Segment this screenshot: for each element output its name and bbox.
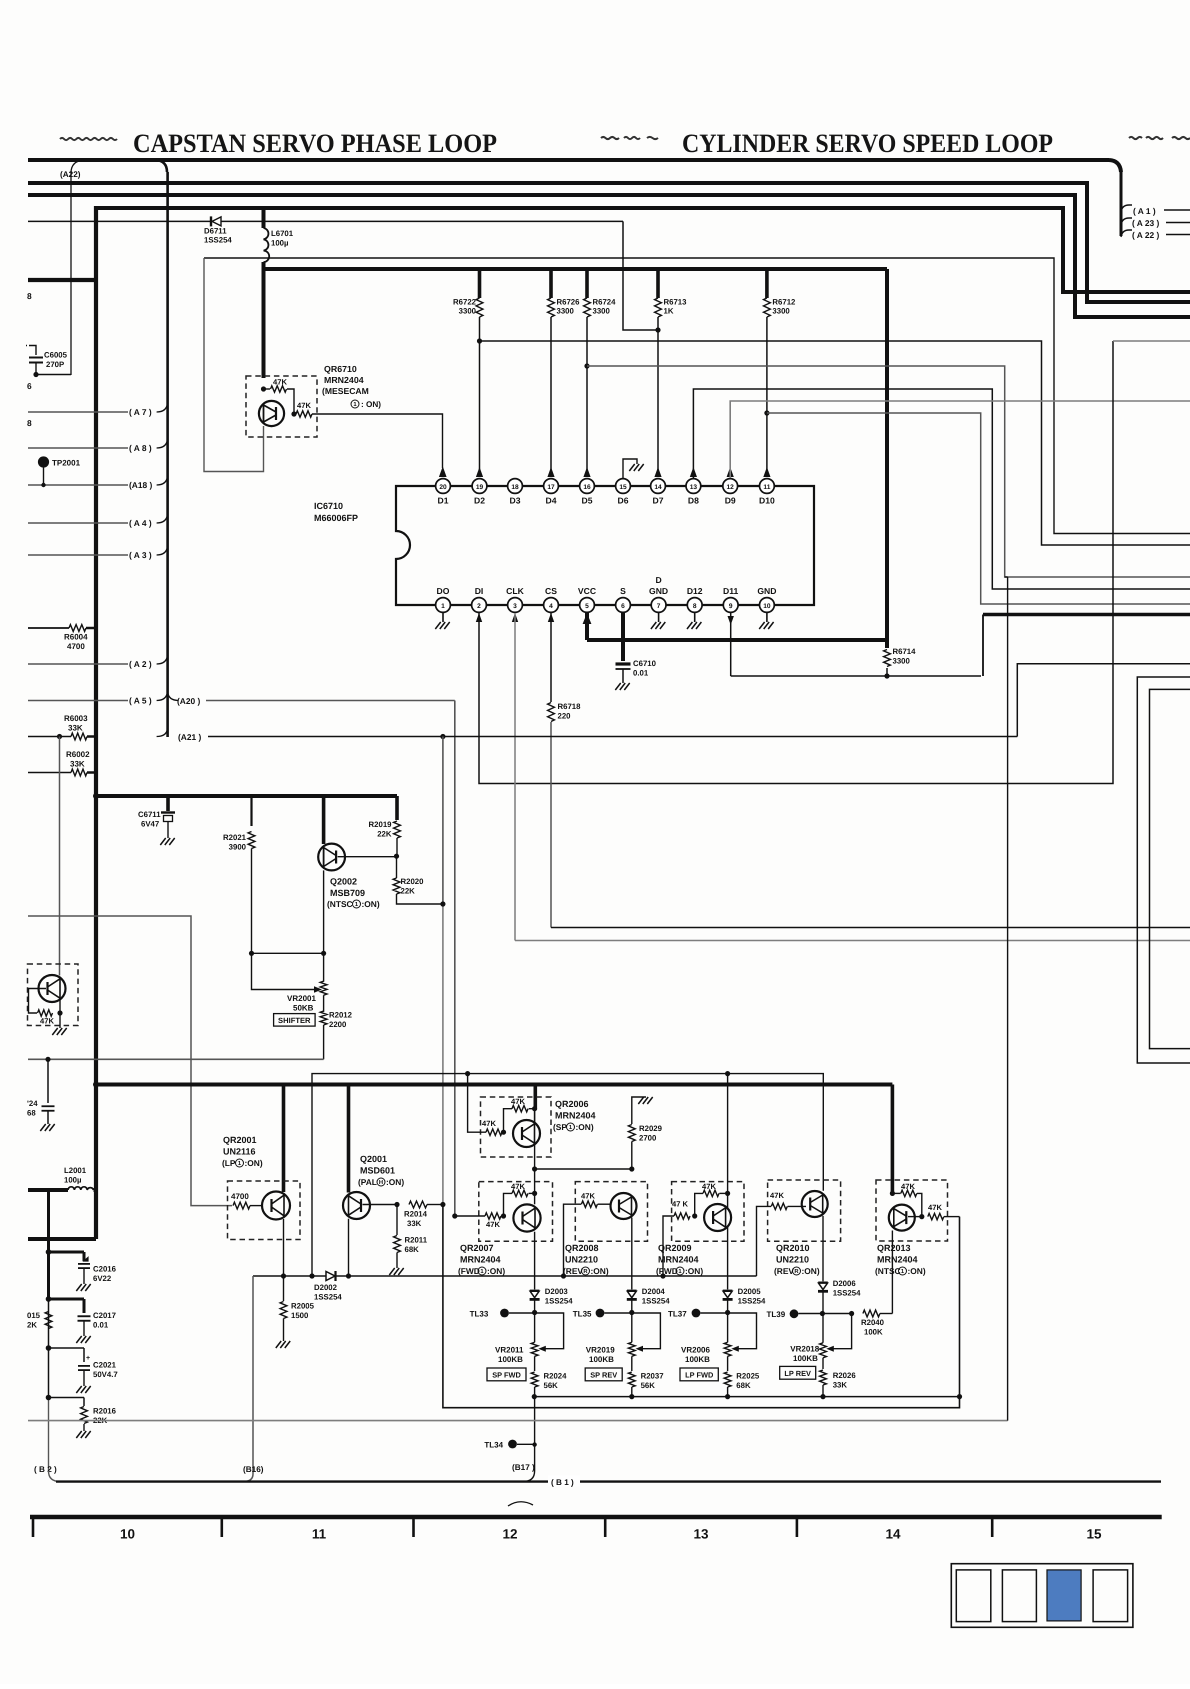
svg-text:100µ: 100µ (271, 239, 289, 248)
connector (A22) top left hook (60, 160, 84, 179)
navigator square 4 (1093, 1570, 1128, 1622)
svg-text:D11: D11 (723, 586, 739, 596)
capacitor C2024 (27, 1059, 55, 1131)
label box LP REV (780, 1366, 816, 1379)
svg-text:R6726: R6726 (557, 298, 581, 307)
svg-text:TL35: TL35 (573, 1310, 592, 1319)
svg-text:1SS254: 1SS254 (204, 236, 232, 245)
svg-text:270P: 270P (46, 360, 64, 369)
svg-text:DI: DI (475, 586, 484, 596)
wire right cable vertical x1122 (1120, 170, 1123, 236)
svg-text::ON): :ON) (591, 1266, 609, 1276)
svg-text:R2040: R2040 (861, 1318, 885, 1327)
navigator outer box (951, 1564, 1133, 1628)
svg-text:4: 4 (549, 603, 553, 610)
arrow into top pin (654, 467, 661, 477)
label QR6710 (322, 364, 381, 409)
label QR2001 (222, 1135, 263, 1168)
svg-text:47K: 47K (702, 1182, 716, 1191)
wire thick bus y269 (264, 269, 888, 648)
wire pin19 net y341 (480, 341, 1190, 545)
svg-text:UN2210: UN2210 (565, 1255, 598, 1265)
transistor QR2008 (611, 1193, 637, 1219)
IC6710 pin 1 (DO) (436, 586, 451, 612)
wire QR2006 base feed from rail (468, 1074, 486, 1133)
connector (B16) (243, 1465, 264, 1474)
connector (A21) (157, 729, 202, 743)
svg-text:D2004: D2004 (642, 1287, 666, 1296)
transistor QR2007 (513, 1169, 540, 1232)
wire top bus 2 (y183) with right drop (28, 183, 1190, 302)
IC6710 pin 12 (D9) (723, 479, 738, 506)
wire Q2001 output (363, 1202, 400, 1207)
svg-text::ON): :ON) (362, 899, 380, 909)
svg-text:'24: '24 (27, 1099, 38, 1108)
connector (A 8) (28, 439, 168, 453)
IC U IC6710 outline (314, 486, 814, 605)
wire QR2013 emitter to R2040 corner (891, 1231, 893, 1314)
svg-text:2200: 2200 (329, 1020, 347, 1029)
resistor R6718 (548, 702, 582, 722)
wire thin rail y258 (204, 258, 1190, 534)
label box LP FWD (680, 1368, 718, 1381)
svg-text:14: 14 (654, 484, 662, 491)
svg-text:D5: D5 (582, 496, 593, 506)
transistor QR2007 dashed box (479, 1182, 553, 1242)
svg-text:L2001: L2001 (64, 1166, 87, 1175)
svg-text:68: 68 (27, 1109, 36, 1118)
resistor 47K (left Q) (38, 1010, 63, 1026)
resistor 47K (QR2009 top) (695, 1182, 731, 1216)
svg-text:R2024: R2024 (544, 1372, 568, 1381)
svg-text:CYLINDER SERVO SPEED LOOP: CYLINDER SERVO SPEED LOOP (682, 128, 1053, 158)
svg-text:47K: 47K (581, 1192, 595, 1201)
svg-text:47K: 47K (273, 378, 287, 387)
resistor R2016 (46, 1395, 117, 1438)
ground hook above pin 15 (623, 459, 644, 478)
svg-text:MRN2404: MRN2404 (877, 1255, 918, 1265)
svg-text:R2014: R2014 (404, 1210, 428, 1219)
wire y221 from left edge (28, 220, 264, 222)
label QR2006 (553, 1099, 596, 1132)
svg-text:UN2116: UN2116 (223, 1147, 256, 1157)
svg-text:QR2001: QR2001 (223, 1135, 257, 1145)
svg-text:47K: 47K (770, 1191, 784, 1200)
wire top bus 1 (y160) (28, 160, 1121, 172)
wire y916 gray to QR2001 input (28, 916, 232, 1206)
svg-text:D9: D9 (725, 496, 736, 506)
svg-text:TL34: TL34 (484, 1441, 503, 1450)
wire Q2001 emitter (346, 1219, 351, 1279)
svg-text:C6710: C6710 (633, 659, 657, 668)
wire QR2008 emitter (631, 1218, 633, 1290)
svg-text:(MESECAM: (MESECAM (322, 386, 369, 396)
resistor 47K (QR2013 output) (928, 1203, 960, 1220)
svg-text:LP FWD: LP FWD (685, 1371, 714, 1380)
wire x204 drop to QR6710 emitter (204, 258, 264, 472)
svg-text:R2037: R2037 (641, 1372, 664, 1381)
potentiometer VR2019 (586, 1313, 661, 1365)
title squiggles right of CYLINDER title (1129, 137, 1190, 139)
wire net y1276 (D2002 line) (253, 1273, 757, 1278)
svg-text:100KB: 100KB (793, 1354, 818, 1363)
svg-text:220: 220 (558, 712, 572, 721)
label QR2007 (458, 1243, 505, 1276)
navigator square 2 (1002, 1570, 1036, 1622)
svg-text:1SS254: 1SS254 (738, 1297, 766, 1306)
svg-text:3300: 3300 (893, 657, 911, 666)
resistor R6714 (884, 640, 917, 679)
svg-text:10: 10 (120, 1527, 135, 1542)
resistor R2012 (320, 1011, 352, 1060)
resistor 47K (QR2009 base) (663, 1200, 697, 1277)
svg-text:10: 10 (763, 603, 771, 610)
svg-text:MRN2404: MRN2404 (555, 1111, 596, 1121)
svg-text:( A 4 ): ( A 4 ) (129, 518, 152, 528)
IC6710 pin 11 (D10) (759, 479, 775, 506)
svg-text:50V4.7: 50V4.7 (93, 1370, 118, 1379)
label Q2001 (358, 1154, 404, 1187)
svg-text:( B 1 ): ( B 1 ) (551, 1478, 574, 1487)
svg-text:015: 015 (27, 1311, 41, 1320)
resistor R2011 (389, 1205, 427, 1276)
svg-text:100KB: 100KB (685, 1355, 710, 1364)
wire y1059 gray (28, 1057, 324, 1062)
svg-text:33K: 33K (70, 760, 85, 769)
svg-text:D6711: D6711 (204, 227, 227, 236)
IC6710 pin 5 (VCC) (578, 586, 596, 612)
resistor R6004 (28, 625, 96, 651)
svg-text:( A 3 ): ( A 3 ) (129, 550, 152, 560)
svg-text:47K: 47K (40, 1017, 54, 1026)
wire thick y796 (93, 793, 397, 799)
svg-text:QR2009: QR2009 (658, 1243, 692, 1253)
svg-text:3300: 3300 (459, 307, 477, 316)
arrow into top pin (547, 467, 554, 477)
svg-text:D1: D1 (438, 496, 449, 506)
svg-text:CLK: CLK (506, 586, 524, 596)
svg-text:DO: DO (437, 586, 450, 596)
svg-text:22K: 22K (377, 830, 392, 839)
svg-text:3300: 3300 (557, 307, 575, 316)
svg-text:C2021: C2021 (93, 1361, 117, 1370)
svg-text:(B17 ): (B17 ) (512, 1463, 535, 1472)
svg-text:2: 2 (477, 603, 481, 610)
svg-text:MRN2404: MRN2404 (324, 375, 364, 385)
svg-text:47K: 47K (928, 1203, 942, 1212)
svg-text:Q2002: Q2002 (330, 877, 357, 887)
svg-text:18: 18 (511, 484, 519, 491)
svg-text:Q2001: Q2001 (360, 1154, 387, 1164)
wire B rail y1481.6 (56, 1480, 1161, 1482)
svg-text:3300: 3300 (772, 307, 790, 316)
wire QR2008 base feed (564, 1204, 582, 1276)
svg-text:1K: 1K (664, 307, 674, 316)
svg-text:1: 1 (441, 603, 445, 610)
svg-text:15: 15 (619, 484, 627, 491)
svg-text:R6724: R6724 (593, 298, 617, 307)
svg-text:QR2006: QR2006 (555, 1099, 589, 1109)
svg-text:UN2210: UN2210 (776, 1255, 809, 1265)
svg-text:47 K: 47 K (672, 1200, 689, 1209)
arrow into top pin (439, 467, 446, 477)
svg-text:100K: 100K (864, 1328, 883, 1337)
svg-text:R2019: R2019 (369, 820, 393, 829)
svg-text:15: 15 (1086, 1527, 1102, 1542)
svg-text:GND: GND (757, 586, 776, 596)
svg-text:(FWD: (FWD (458, 1266, 480, 1276)
ground pin10 (759, 612, 773, 629)
svg-text:R6002: R6002 (66, 750, 90, 759)
test point TL37 (668, 1309, 730, 1319)
wire pin16 net y366 (587, 366, 1190, 577)
svg-text:R2005: R2005 (291, 1302, 315, 1311)
svg-text:(B16): (B16) (243, 1465, 264, 1474)
svg-text::ON): :ON) (487, 1266, 505, 1276)
arc decoration above ruler (508, 1502, 533, 1506)
test point TL35 (573, 1309, 635, 1319)
svg-text:2K: 2K (27, 1321, 37, 1330)
svg-text:VR2001: VR2001 (287, 994, 316, 1003)
IC6710 pin 3 (CLK) (506, 586, 524, 612)
inductor L2001 (28, 1166, 96, 1190)
svg-text:( A 5 ): ( A 5 ) (129, 696, 152, 706)
resistor R6002 (28, 750, 96, 776)
svg-text:1SS254: 1SS254 (314, 1293, 342, 1302)
connector (A18) (28, 476, 168, 490)
IC6710 pin 14 (D7) (651, 479, 666, 506)
svg-text:47K: 47K (486, 1220, 500, 1229)
svg-text:(NTSC: (NTSC (327, 899, 353, 909)
svg-text:6: 6 (27, 381, 32, 391)
transistor QR2001 (262, 1192, 290, 1220)
transistor Q (left edge) dashed box (28, 964, 79, 1026)
ground pin1 (435, 612, 449, 629)
svg-text:+: + (86, 1355, 90, 1362)
wire base left Q (29, 989, 47, 1014)
svg-text::ON): :ON) (908, 1266, 926, 1276)
wire pin13 net y389 (693, 389, 1190, 589)
svg-text:S: S (620, 586, 626, 596)
svg-text:R6713: R6713 (664, 298, 688, 307)
test point TP2001 (38, 456, 81, 487)
svg-text:C6711: C6711 (138, 810, 161, 819)
ground pin7 (651, 612, 665, 629)
svg-text:12: 12 (502, 1527, 517, 1542)
svg-text:QR2007: QR2007 (460, 1243, 494, 1253)
svg-text:IC6710: IC6710 (314, 501, 343, 511)
resistor R2029 (628, 1097, 662, 1169)
svg-text:MRN2404: MRN2404 (658, 1255, 699, 1265)
IC6710 pin 2 (DI) (472, 586, 487, 612)
svg-text:( A 1 ): ( A 1 ) (1133, 206, 1156, 216)
svg-text:22K: 22K (401, 887, 416, 896)
svg-text:R2011: R2011 (405, 1236, 428, 1245)
resistor R6724 (584, 269, 617, 471)
label QR2013 (875, 1243, 926, 1276)
svg-text:8: 8 (693, 603, 697, 610)
wire x1007.6 long vertical (1005, 577, 1008, 1421)
svg-text:( B 2 ): ( B 2 ) (34, 1465, 57, 1474)
transistor QR2008 dashed box (575, 1182, 647, 1242)
svg-text:100KB: 100KB (498, 1355, 523, 1364)
connector (A 1) (1121, 205, 1190, 216)
stray label 6 (y386) (27, 381, 32, 391)
arrow into top pin (727, 467, 734, 477)
svg-text:(SP: (SP (553, 1122, 567, 1132)
svg-text:0.01: 0.01 (93, 1321, 109, 1330)
svg-text:R2020: R2020 (401, 877, 425, 886)
label box SP REV (585, 1368, 622, 1381)
wire top bus 4 (y208) from x96 with right drop (97, 208, 1190, 292)
svg-text:QR6710: QR6710 (324, 364, 357, 374)
resistor R6003 (28, 714, 96, 740)
svg-text:50KB: 50KB (293, 1004, 314, 1013)
IC6710 pin 7 (GND) (649, 575, 668, 612)
transistor Q2002 (318, 796, 345, 870)
diode D2002 (314, 1271, 342, 1302)
connector ( B 1 ) (548, 1476, 580, 1488)
svg-text:VR2011: VR2011 (495, 1346, 524, 1355)
connector (A 2) (28, 655, 168, 669)
wire R2021 to emitter junction (249, 951, 324, 993)
wire thick vertical x96 (94, 206, 98, 1239)
svg-text:(REV: (REV (563, 1266, 583, 1276)
capacitor C6711 (138, 796, 175, 845)
wire Q2001 collector stub (347, 1085, 351, 1193)
label QR2008 (563, 1243, 609, 1276)
diode D2003 (530, 1232, 574, 1313)
svg-text:5: 5 (585, 603, 589, 610)
IC6710 pin 15 (D6) (616, 479, 631, 506)
svg-text:12: 12 (727, 484, 735, 491)
svg-text:13: 13 (693, 1527, 709, 1542)
IC6710 pin 13 (D8) (686, 479, 701, 506)
svg-text:R6003: R6003 (64, 714, 88, 723)
wire QR2010 base feed (757, 1206, 772, 1276)
svg-text:16: 16 (583, 484, 591, 491)
wire TL34 drop / B17 (523, 1397, 537, 1482)
svg-text:GND: GND (649, 586, 668, 596)
wire pin2 DI net (476, 341, 1190, 784)
ruler ticks (33, 1519, 992, 1537)
label box SHIFTER (274, 1014, 316, 1027)
transistor QR2009 (704, 1074, 731, 1231)
resistor R2025 (724, 1356, 760, 1399)
svg-text:TL39: TL39 (767, 1310, 786, 1319)
svg-text:LP REV: LP REV (784, 1369, 811, 1378)
resistor R6726 (548, 269, 581, 471)
IC6710 pin 6 (S) (616, 586, 631, 612)
title CAPSTAN SERVO PHASE LOOP (133, 128, 497, 158)
svg-text:1SS254: 1SS254 (833, 1289, 861, 1298)
svg-text:TL33: TL33 (470, 1310, 489, 1319)
test point TL34 (484, 1440, 534, 1450)
svg-text:47K: 47K (297, 401, 311, 410)
resistor R2014 (404, 1201, 446, 1228)
svg-text:14: 14 (885, 1527, 901, 1542)
resistor 47K (QR2010 base) (770, 1191, 806, 1210)
connector (A 7) (28, 403, 168, 417)
diode D2005 (723, 1287, 766, 1313)
svg-text:4700: 4700 (231, 1192, 249, 1201)
svg-text:2700: 2700 (639, 1134, 657, 1143)
svg-text:( A 8 ): ( A 8 ) (129, 443, 152, 453)
navigator square 3 (active, blue) (1047, 1570, 1081, 1621)
wire top bus 3 (y195) with right drop (28, 195, 1190, 317)
svg-text:D2002: D2002 (314, 1283, 338, 1292)
wire QR2009 emitter (727, 1227, 729, 1290)
svg-text:11: 11 (312, 1527, 327, 1542)
connector (B17) (512, 1463, 535, 1472)
transistor QR6710 dashed box (246, 376, 317, 437)
svg-text:4700: 4700 (67, 642, 85, 651)
wire thick rail y1084.5 (93, 1082, 892, 1088)
resistor 47K (QR2006 top) (504, 1097, 538, 1132)
svg-text:33K: 33K (833, 1381, 848, 1390)
IC6710 pin 20 (D1) (436, 479, 451, 506)
wire QR2001 emitter (281, 1219, 286, 1279)
svg-text:R2016: R2016 (93, 1407, 117, 1416)
resistor 47K (QR2007 base) (452, 1213, 506, 1229)
resistor R2005 (276, 1276, 315, 1348)
svg-text:3300: 3300 (593, 307, 611, 316)
svg-text:1SS254: 1SS254 (642, 1297, 670, 1306)
resistor 47K (QR2007 top) (504, 1182, 538, 1216)
resistor R2015 (27, 1311, 52, 1330)
wire emitter left Q to ground (52, 1000, 66, 1036)
connector (B 2) (34, 1465, 61, 1482)
label Q2002 (327, 877, 380, 910)
svg-text:( A 2 ): ( A 2 ) (129, 659, 152, 669)
svg-text:QR2008: QR2008 (565, 1243, 599, 1253)
svg-text:100µ: 100µ (64, 1176, 82, 1185)
IC6710 pin 16 (D5) (580, 479, 595, 506)
wire QR2001 collector stub (282, 1085, 286, 1193)
wire thick stub y280 left (28, 278, 96, 282)
capacitor C6710 (615, 659, 656, 690)
wire Q2002 base to R2019/R2020 node (338, 854, 400, 859)
arrow into top pin (583, 467, 590, 477)
svg-text:VR2006: VR2006 (681, 1346, 710, 1355)
IC6710 pin 19 (D2) (472, 479, 487, 506)
transistor Q left edge (39, 975, 66, 1002)
wire pin6 S to C6710 (621, 612, 625, 661)
svg-text:1SS254: 1SS254 (545, 1297, 573, 1306)
svg-text:C2017: C2017 (93, 1311, 116, 1320)
svg-text:9: 9 (729, 603, 733, 610)
svg-text:H: H (379, 1180, 383, 1186)
wire pin9 D11 net (728, 612, 982, 676)
svg-text:R2026: R2026 (833, 1371, 857, 1380)
svg-text:QR2010: QR2010 (776, 1243, 810, 1253)
svg-text:100KB: 100KB (589, 1355, 614, 1364)
potentiometer VR2018 (790, 1314, 851, 1364)
resistor R2040 (861, 1310, 892, 1336)
svg-text:33K: 33K (68, 724, 83, 733)
transistor QR2010 (802, 1191, 828, 1217)
svg-text:33K: 33K (407, 1219, 422, 1228)
wire pot bottom rail y1396.6 (534, 1394, 962, 1399)
svg-text:(PAL: (PAL (358, 1177, 377, 1187)
svg-text:3: 3 (513, 603, 517, 610)
svg-text:68K: 68K (405, 1245, 420, 1254)
svg-text:D2: D2 (474, 496, 485, 506)
wire thick y614.5 right (983, 615, 1190, 677)
svg-text:56K: 56K (641, 1381, 656, 1390)
svg-text:SP FWD: SP FWD (492, 1371, 521, 1380)
svg-text:VR2019: VR2019 (586, 1346, 615, 1355)
